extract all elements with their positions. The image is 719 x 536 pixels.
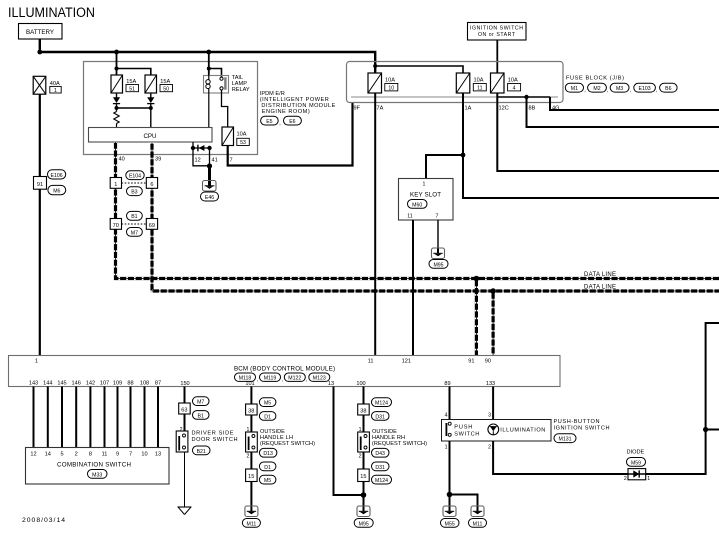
- wire to ground E46: [208, 166, 211, 184]
- ground E46: [201, 181, 219, 202]
- svg-text:IGNITION SWITCH: IGNITION SWITCH: [554, 426, 610, 432]
- chassis ground driver door: [178, 507, 192, 515]
- svg-text:4: 4: [445, 413, 448, 419]
- wire 15 to ground M11: [250, 482, 252, 509]
- svg-text:1A: 1A: [465, 106, 472, 112]
- node fuse10-11 branch: [373, 64, 377, 68]
- svg-text:PUSH: PUSH: [454, 425, 472, 431]
- svg-text:2: 2: [359, 454, 362, 460]
- svg-text:1: 1: [445, 445, 448, 451]
- ground M55: [441, 506, 460, 527]
- svg-text:2: 2: [247, 454, 250, 460]
- wire handle RH to 15: [363, 452, 365, 469]
- svg-text:144: 144: [43, 381, 52, 387]
- svg-text:8: 8: [89, 452, 92, 458]
- svg-text:FUSE BLOCK (J/B): FUSE BLOCK (J/B): [566, 76, 624, 82]
- wire 40A to connector 91: [39, 94, 41, 176]
- ground M95 key slot: [429, 248, 448, 268]
- svg-text:10: 10: [141, 452, 147, 458]
- svg-text:11: 11: [477, 86, 482, 92]
- svg-text:1: 1: [54, 88, 57, 94]
- svg-text:2: 2: [75, 452, 78, 458]
- connector 63 M7/B1: [179, 397, 209, 420]
- svg-text:1: 1: [647, 476, 650, 482]
- wire BCM 100 to connector 38 RH: [363, 387, 365, 405]
- svg-text:M33: M33: [92, 472, 102, 478]
- wire diode to right edge: [646, 323, 719, 474]
- svg-text:ILLUMINATION: ILLUMINATION: [500, 428, 545, 434]
- wire relay feed: [208, 52, 210, 75]
- svg-text:50: 50: [163, 86, 169, 92]
- svg-text:2008/03/14: 2008/03/14: [22, 517, 65, 524]
- svg-text:,: ,: [607, 88, 608, 94]
- connector D31/15/M124: [358, 462, 392, 484]
- svg-text:M95: M95: [359, 521, 369, 527]
- svg-text:M124: M124: [375, 478, 388, 484]
- svg-text:39: 39: [155, 157, 161, 163]
- svg-text:M7: M7: [131, 230, 138, 236]
- svg-text:DOOR SWITCH: DOOR SWITCH: [192, 437, 238, 443]
- fuse 10 10A: [368, 73, 398, 93]
- wire main bus: [40, 52, 375, 73]
- svg-text:108: 108: [140, 381, 149, 387]
- svg-text:3: 3: [488, 413, 491, 419]
- connector 38 M5/D1: [246, 398, 276, 421]
- wire data line drop BCM 90: [492, 291, 495, 355]
- key slot unit: [399, 179, 454, 221]
- connector 38 M124/D31: [358, 398, 392, 421]
- node data line junction lower: [490, 288, 496, 294]
- svg-text:11: 11: [368, 359, 374, 365]
- node bus-fuse51 junction: [114, 50, 119, 55]
- svg-text:143: 143: [29, 381, 38, 387]
- node bus-battery junction: [37, 50, 42, 55]
- wire fuse50 diode to CPU: [150, 108, 152, 127]
- op CPU box: [89, 128, 213, 143]
- svg-text:40: 40: [119, 157, 125, 163]
- node right edge junction: [703, 427, 708, 432]
- wire 12C to 8B 4G strip: [497, 96, 550, 98]
- svg-text:BCM (BODY CONTROL MODULE): BCM (BODY CONTROL MODULE): [234, 366, 335, 373]
- wire key slot pin 1 feed: [426, 155, 463, 178]
- svg-text:133: 133: [486, 381, 495, 387]
- ignition switch source box: [468, 23, 527, 41]
- wire data line CAN-L from CPU 39: [152, 142, 719, 291]
- svg-text:PUSH-BUTTON: PUSH-BUTTON: [554, 419, 600, 425]
- fuse block J/B box: [347, 62, 564, 103]
- wire pin 41: [209, 148, 211, 167]
- svg-text:D43: D43: [375, 451, 385, 457]
- svg-text:DIODE: DIODE: [627, 450, 645, 456]
- svg-text:7A: 7A: [377, 106, 384, 112]
- wire 38 to handle LH switch: [250, 415, 252, 433]
- svg-text:E46: E46: [205, 195, 214, 201]
- wire relay contact feed: [209, 69, 222, 78]
- FUSE BLOCK label: [565, 76, 677, 94]
- wire data line drop BCM 91: [475, 279, 478, 356]
- fuse 50 15A: [145, 75, 173, 93]
- svg-text:8B: 8B: [529, 106, 536, 112]
- wire 4G output: [550, 97, 719, 110]
- svg-text:2: 2: [624, 476, 627, 482]
- svg-text:M124: M124: [375, 401, 388, 407]
- svg-text:89: 89: [444, 381, 450, 387]
- wire crossing patches on data lines: [150, 277, 478, 293]
- svg-text:DATA LINE: DATA LINE: [584, 272, 616, 278]
- svg-text:5: 5: [60, 452, 63, 458]
- diode D12-41: [191, 142, 212, 151]
- svg-text:,: ,: [306, 377, 307, 383]
- svg-text:M6: M6: [53, 189, 60, 195]
- wire fuse4 to 12C output: [497, 93, 719, 171]
- svg-text:10: 10: [388, 86, 394, 92]
- svg-text:M131: M131: [559, 437, 572, 443]
- svg-text:12: 12: [195, 158, 201, 164]
- connector 91 E106/M6: [34, 170, 66, 195]
- svg-text:M60: M60: [412, 202, 422, 208]
- svg-text:4: 4: [513, 86, 516, 92]
- wire BCM 150 to connector 63: [184, 387, 186, 404]
- svg-text:41: 41: [212, 158, 218, 164]
- node ground junction M55: [447, 492, 453, 498]
- svg-text:63: 63: [181, 407, 187, 413]
- svg-text:CPU: CPU: [143, 133, 156, 140]
- wire illumination pin 2 to diode: [493, 441, 628, 474]
- svg-text:KEY SLOT: KEY SLOT: [410, 192, 441, 199]
- wire data line CAN-H from CPU 40: [116, 142, 719, 279]
- svg-text:M119: M119: [264, 376, 277, 382]
- wire 7A to BCM pin 11: [374, 93, 376, 355]
- wire relay contact to fuse 53: [222, 90, 228, 127]
- wire push switch pin 1 to ground: [449, 441, 451, 508]
- svg-text:7: 7: [436, 214, 439, 220]
- wire stub to right edge: [706, 429, 719, 431]
- wire 91 to BCM pin 1: [39, 189, 41, 355]
- svg-text:,: ,: [630, 88, 631, 94]
- wire 63 to door switch: [184, 414, 186, 434]
- fuse 4 10A: [491, 73, 521, 93]
- ground M11 handle LH: [242, 506, 260, 527]
- wire BCM 133 to illumination pin 3: [492, 387, 494, 420]
- connector row B1/M7 pins 70-69: [110, 211, 157, 236]
- svg-text:91: 91: [37, 182, 43, 188]
- svg-text:E5: E5: [266, 119, 272, 125]
- svg-text:M5: M5: [264, 478, 271, 484]
- svg-text:107: 107: [100, 381, 109, 387]
- svg-text:DRIVER SIDE: DRIVER SIDE: [192, 431, 234, 437]
- svg-text:ILLUMINATION: ILLUMINATION: [8, 5, 95, 21]
- BCM body control module box: [9, 356, 561, 387]
- node data line junction upper: [474, 276, 480, 282]
- wire BCM 101 to connector 38: [250, 387, 252, 405]
- svg-text:9: 9: [116, 452, 119, 458]
- push-button ignition switch label: [554, 419, 610, 443]
- wire 15 to ground M95: [363, 482, 365, 509]
- svg-text:DATA LINE: DATA LINE: [584, 285, 616, 291]
- diode D-51: [113, 93, 120, 108]
- wire BCM 89 to push switch pin 4: [449, 387, 451, 420]
- svg-text:M59: M59: [631, 460, 641, 466]
- node bus-relay junction: [206, 50, 211, 55]
- svg-text:ON or START: ON or START: [478, 32, 516, 38]
- fusible link 40A 1: [33, 76, 61, 94]
- push-button ignition switch box M131: [442, 420, 552, 442]
- driver side door switch: [176, 431, 237, 455]
- svg-text:146: 146: [72, 381, 81, 387]
- svg-text:M3: M3: [616, 86, 623, 92]
- svg-text:B1: B1: [131, 214, 137, 220]
- node diode join right: [149, 106, 153, 110]
- wire door switch to chassis ground: [184, 452, 186, 507]
- svg-text:E6: E6: [289, 119, 295, 125]
- BCM bottom pin labels combination switch: [29, 381, 495, 388]
- svg-text:14: 14: [45, 452, 51, 458]
- svg-text:RELAY: RELAY: [232, 87, 250, 93]
- svg-text:BATTERY: BATTERY: [26, 29, 54, 36]
- svg-text:M1: M1: [571, 86, 578, 92]
- svg-text:2: 2: [488, 445, 491, 451]
- ground M11 right: [469, 506, 487, 527]
- svg-text:,: ,: [656, 88, 657, 94]
- svg-text:15: 15: [248, 474, 254, 480]
- svg-text:(REQUEST SWITCH): (REQUEST SWITCH): [372, 441, 427, 447]
- svg-text:COMBINATION SWITCH: COMBINATION SWITCH: [57, 462, 131, 469]
- svg-text:69: 69: [149, 223, 155, 229]
- diode D-50: [147, 93, 154, 108]
- wire fuse11 to 1A output: [463, 93, 719, 198]
- relay K1 tail lamp relay: [204, 75, 250, 93]
- node ground junction M95: [361, 492, 367, 498]
- svg-text:6: 6: [150, 182, 153, 188]
- svg-text:109: 109: [113, 381, 122, 387]
- svg-text:D1: D1: [264, 414, 271, 420]
- wire diode join: [117, 107, 151, 109]
- svg-text:70: 70: [113, 223, 119, 229]
- svg-text:M11: M11: [473, 521, 483, 527]
- resistor R1: [114, 108, 119, 127]
- svg-text:38: 38: [248, 408, 254, 414]
- svg-text:E103: E103: [639, 86, 651, 92]
- svg-text:101: 101: [245, 381, 254, 387]
- node diode join left: [115, 106, 119, 110]
- wire battery to bus: [39, 39, 41, 52]
- outside handle LH request switch: [246, 429, 316, 460]
- svg-text:51: 51: [129, 86, 135, 92]
- svg-text:D1: D1: [264, 465, 271, 471]
- svg-text:M122: M122: [288, 376, 301, 382]
- fuse 53 10A: [222, 127, 249, 146]
- svg-text:38: 38: [360, 408, 366, 414]
- node pin41 ground junction: [207, 163, 212, 168]
- svg-text:13: 13: [328, 381, 334, 387]
- svg-text:10A: 10A: [508, 78, 518, 84]
- svg-text:B21: B21: [197, 449, 206, 455]
- svg-text:E106: E106: [51, 173, 63, 179]
- svg-text:11: 11: [407, 214, 412, 220]
- svg-text:M95: M95: [433, 262, 443, 268]
- diode M59: [624, 450, 650, 482]
- svg-text:D13: D13: [263, 451, 273, 457]
- svg-text:D31: D31: [375, 414, 385, 420]
- wire feed fuse 51: [116, 52, 118, 75]
- svg-text:53: 53: [240, 140, 246, 146]
- wire feed fuse 50: [117, 69, 151, 76]
- fuse 51 15A: [111, 75, 139, 93]
- wire pin 12: [193, 148, 210, 166]
- svg-text:1: 1: [423, 182, 426, 188]
- svg-text:145: 145: [57, 381, 66, 387]
- svg-text:IGNITION SWITCH: IGNITION SWITCH: [470, 26, 523, 32]
- svg-text:M11: M11: [247, 521, 257, 527]
- svg-text:100: 100: [356, 381, 365, 387]
- svg-text:9F: 9F: [354, 106, 361, 112]
- wire pin7 to 9F: [228, 102, 353, 166]
- fuse 11 10A: [456, 73, 486, 93]
- svg-text:12: 12: [30, 452, 36, 458]
- ground M95 bottom: [354, 506, 373, 527]
- svg-text:,: ,: [257, 377, 258, 383]
- svg-text:7: 7: [129, 452, 132, 458]
- combination switch box: [26, 448, 170, 485]
- svg-text:90: 90: [485, 359, 491, 365]
- svg-text:87: 87: [155, 381, 161, 387]
- wire BCM 13 to ground junction: [334, 387, 364, 496]
- svg-text:91: 91: [468, 359, 474, 365]
- svg-text:88: 88: [127, 381, 133, 387]
- wire branch to M11 ground: [450, 495, 478, 509]
- svg-text:15: 15: [360, 474, 366, 480]
- wire feed fuse 11: [375, 66, 463, 73]
- svg-text:150: 150: [180, 381, 189, 387]
- svg-text:E104: E104: [129, 174, 141, 180]
- svg-text:,: ,: [282, 377, 283, 383]
- svg-text:M5: M5: [264, 401, 271, 407]
- connector D1/15/M5: [246, 462, 276, 484]
- svg-text:,: ,: [279, 121, 280, 127]
- svg-text:10A: 10A: [237, 132, 247, 138]
- IPDM E/R module box: [84, 62, 258, 155]
- svg-text:(REQUEST SWITCH): (REQUEST SWITCH): [260, 441, 315, 447]
- svg-text:M123: M123: [313, 376, 326, 382]
- svg-text:142: 142: [86, 381, 95, 387]
- svg-text:M2: M2: [593, 86, 600, 92]
- svg-text:B6: B6: [665, 86, 671, 92]
- svg-text:1: 1: [114, 182, 117, 188]
- wires BCM to combination switch: [34, 387, 159, 448]
- wire key slot pin 11 to BCM 121: [412, 220, 414, 355]
- wire 38 to handle RH switch: [363, 415, 365, 433]
- node fuse feed branch: [115, 67, 119, 71]
- wire handle LH to 15: [250, 452, 252, 469]
- svg-text:121: 121: [402, 359, 411, 365]
- svg-text:SWITCH: SWITCH: [454, 431, 479, 437]
- svg-text:ENGINE ROOM): ENGINE ROOM): [262, 109, 310, 115]
- svg-text:,: ,: [584, 88, 585, 94]
- svg-text:M55: M55: [445, 521, 455, 527]
- svg-text:7: 7: [230, 158, 233, 164]
- node key slot branch: [461, 153, 466, 158]
- svg-text:10A: 10A: [385, 78, 395, 84]
- outside handle RH request switch: [358, 429, 427, 460]
- wire relay coil to CPU: [208, 93, 210, 127]
- svg-text:M7: M7: [197, 400, 204, 406]
- svg-text:11: 11: [102, 452, 108, 458]
- wire 8B output: [527, 97, 719, 127]
- IPDM E/R label: [260, 91, 336, 127]
- svg-text:10A: 10A: [474, 78, 484, 84]
- svg-text:B3: B3: [131, 190, 137, 196]
- wire key slot pin 7 to ground: [437, 220, 439, 250]
- node 8B junction: [524, 95, 528, 99]
- svg-text:D31: D31: [375, 465, 385, 471]
- svg-text:13: 13: [155, 452, 161, 458]
- wire ignition switch to fuse 4: [496, 40, 498, 73]
- fuse block inner strip: [351, 96, 558, 98]
- battery B1: [19, 24, 63, 40]
- node relay feed branch: [207, 67, 211, 71]
- svg-text:1: 1: [35, 359, 38, 365]
- connector row E104/B3 pins 1-6: [110, 171, 157, 196]
- svg-text:B1: B1: [198, 413, 204, 419]
- svg-text:12C: 12C: [499, 106, 509, 112]
